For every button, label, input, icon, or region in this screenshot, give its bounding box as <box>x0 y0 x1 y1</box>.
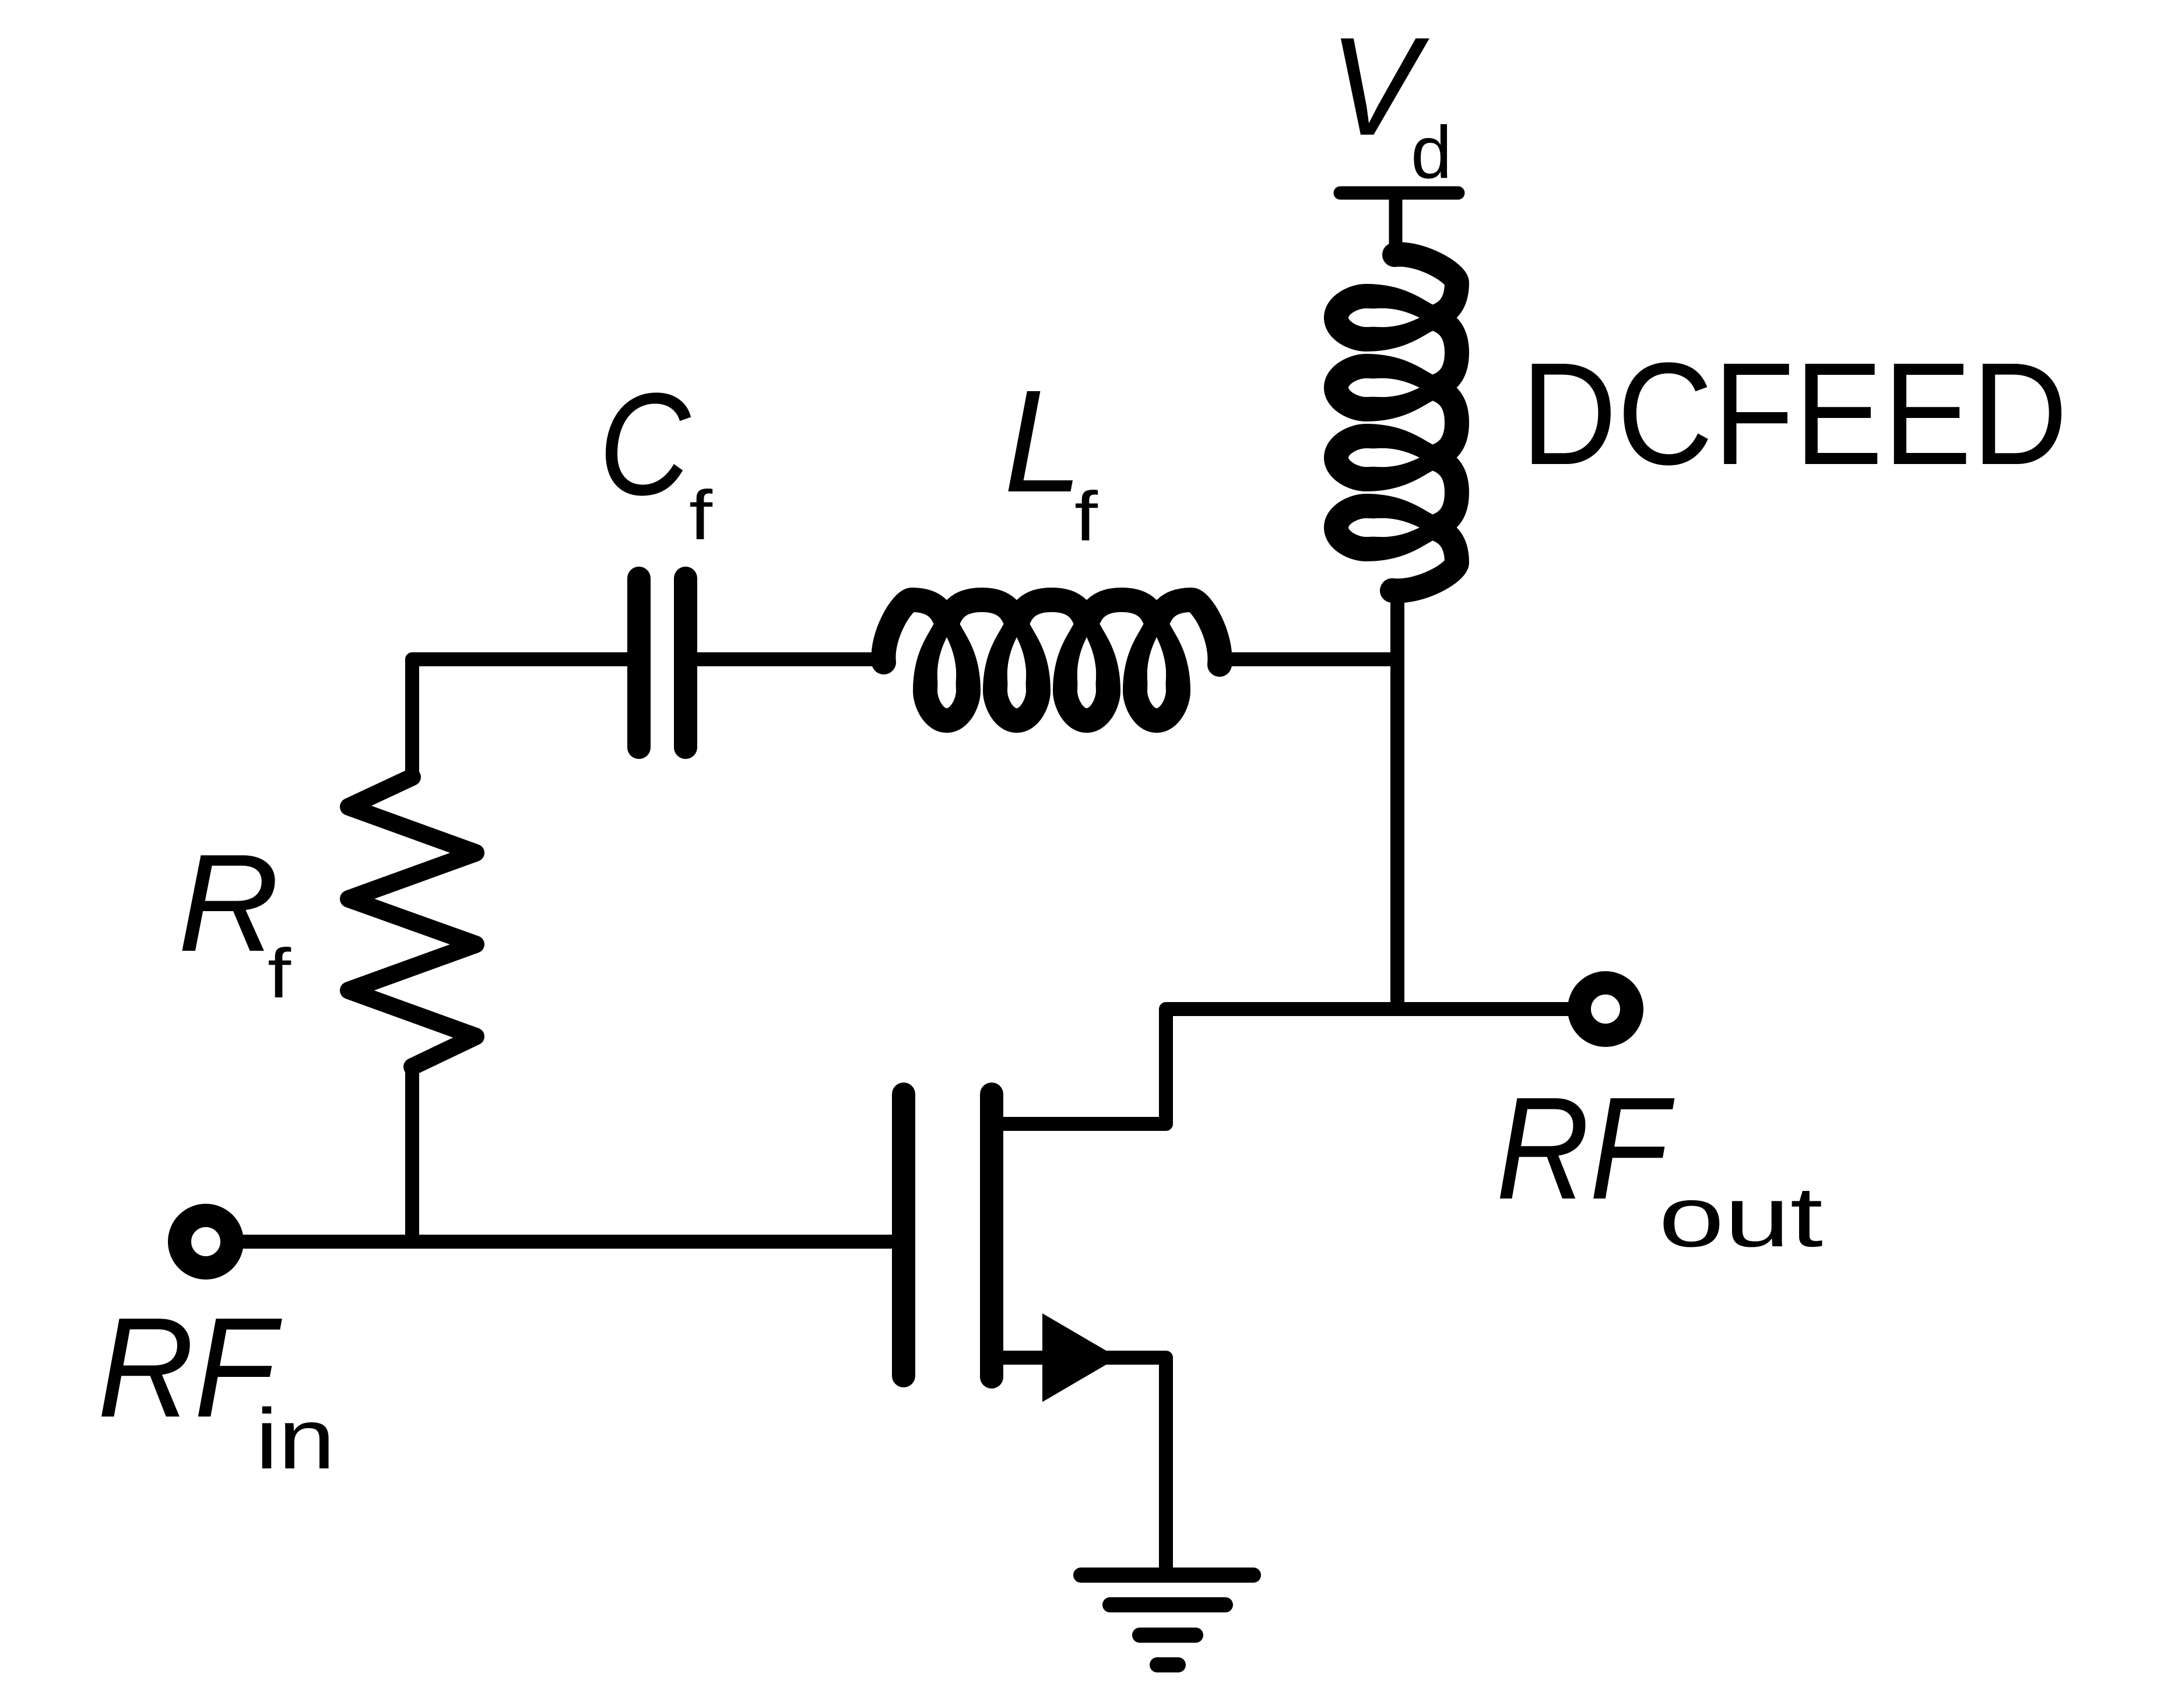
ground bar 4 <box>1157 1657 1178 1672</box>
svg-text:RF: RF <box>1496 1067 1675 1229</box>
svg-text:DCFEED: DCFEED <box>1521 332 2068 495</box>
wire RFin to gate <box>244 1235 892 1249</box>
svg-text:RF: RF <box>97 1288 282 1447</box>
svg-text:R: R <box>178 826 279 980</box>
supply Vd bar <box>1340 187 1458 200</box>
ground bar 3 <box>1140 1628 1196 1643</box>
wire resistor to gate line <box>405 1067 419 1242</box>
wire Cf to Lf <box>696 652 886 666</box>
resistor Rf <box>349 777 476 1067</box>
wire Lf to drain node <box>1222 652 1390 666</box>
inductor Lf hole accents <box>937 637 1166 702</box>
terminal RFout <box>1579 983 1632 1035</box>
inductor DCFEED hole accents <box>1355 308 1420 537</box>
wire feedback left + corner down to resistor <box>412 659 628 777</box>
wire drain vertical <box>1390 591 1404 1009</box>
svg-text:d: d <box>1411 111 1452 194</box>
wire drain to RFout <box>1003 1009 1568 1124</box>
svg-text:L: L <box>1004 360 1083 522</box>
ground bar 2 <box>1110 1597 1225 1612</box>
capacitor Cf plate 1 <box>627 578 651 747</box>
wire source to ground <box>1003 1358 1166 1568</box>
terminal RFin <box>180 1215 232 1268</box>
svg-text:in: in <box>255 1391 335 1487</box>
inductor DCFEED <box>1336 255 1457 591</box>
svg-text:f: f <box>268 934 291 1013</box>
ground bar 1 <box>1081 1568 1253 1583</box>
transistor gate bar <box>892 1094 915 1376</box>
wire supply stub <box>1389 193 1403 259</box>
svg-text:C: C <box>599 363 691 525</box>
capacitor Cf plate 2 <box>674 578 697 747</box>
svg-text:out: out <box>1659 1169 1823 1265</box>
transistor channel bar <box>980 1094 1003 1377</box>
svg-text:f: f <box>1074 477 1098 556</box>
inductor Lf <box>884 600 1220 721</box>
transistor source arrow <box>1042 1313 1118 1402</box>
svg-text:f: f <box>689 476 713 554</box>
